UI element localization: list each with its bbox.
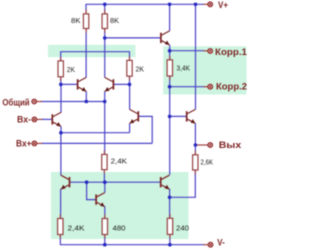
wire 2K left bottom <box>60 77 62 84</box>
wire Korr1 line <box>170 50 204 52</box>
node 2K right / Q4 base / Q2 collector <box>128 83 132 87</box>
wire Korr2 line <box>170 86 204 88</box>
transistor Q8 mirror diode <box>96 193 105 207</box>
wire Q2 collector <box>129 84 131 109</box>
svg-text:Вых: Вых <box>219 140 241 150</box>
transistor Q7 mirror left <box>61 175 70 189</box>
svg-text:2,4K: 2,4K <box>111 156 127 165</box>
resistor R2 8K <box>102 14 119 29</box>
wire 8K left to Q3 collector <box>85 29 87 77</box>
resistor R8 2.4K <box>58 219 85 235</box>
wire 480 bottom <box>104 235 106 245</box>
node 240 at V- rail <box>168 243 172 247</box>
wire 240 bottom <box>169 235 171 245</box>
transistor Q1 input inverting <box>52 112 61 126</box>
terminal Korr.2 <box>208 82 247 92</box>
svg-text:Вх+: Вх+ <box>16 139 32 149</box>
wire mirror base rail <box>70 181 161 183</box>
terminal In+ <box>16 139 37 149</box>
wire Q5 base <box>105 37 161 39</box>
svg-text:480: 480 <box>113 223 126 232</box>
svg-text:V-: V- <box>217 237 224 247</box>
transistor Q6 output <box>187 109 196 123</box>
svg-text:2K: 2K <box>136 64 145 73</box>
terminal V+ <box>208 0 228 10</box>
resistor R6 2.4K <box>102 154 127 169</box>
wire Q5 collector <box>169 4 171 31</box>
wire V- rail <box>60 235 203 245</box>
node 8K right / Q5 base <box>103 36 107 40</box>
node diff emitters / Q7 collector <box>59 131 63 135</box>
wire Q7 emitter to 2.4K <box>60 189 62 218</box>
node Q3 emitter on common line <box>85 100 89 104</box>
wire Q6 emitter to 2.6K <box>194 123 196 154</box>
wire Q8 collector <box>104 182 106 192</box>
terminal common <box>2 97 36 107</box>
svg-text:Корр.2: Корр.2 <box>216 82 247 92</box>
transistor Q5 driver <box>161 31 170 45</box>
node Q4 emitter / common / tail <box>103 100 107 104</box>
svg-text:8K: 8K <box>110 16 119 25</box>
node Q9 emitter / 2.6K / 240 <box>168 196 172 200</box>
svg-text:3,4K: 3,4K <box>177 63 191 72</box>
svg-text:2,4K: 2,4K <box>68 223 85 232</box>
transistor Q4 second stage right <box>105 77 114 91</box>
wire In- lead <box>37 118 43 120</box>
wire Q3 base <box>61 83 78 85</box>
svg-text:240: 240 <box>176 223 189 232</box>
wire Q4 base <box>113 83 129 85</box>
svg-text:2K: 2K <box>67 65 75 74</box>
resistor R1 8K <box>71 14 89 29</box>
svg-text:Вх-: Вх- <box>17 114 31 124</box>
transistor Q3 second stage left <box>78 77 87 91</box>
highlight region bottom current mirror <box>51 172 189 239</box>
wire 8K right top <box>104 4 106 13</box>
resistor R7 2.6K <box>193 155 213 170</box>
wire In+ line <box>42 142 152 144</box>
node Q6 emitter / output <box>194 143 198 147</box>
wire Q4 emitter to 2.4K tail <box>104 91 106 153</box>
svg-text:8K: 8K <box>71 16 81 25</box>
wire Q2 base to In+ <box>138 116 152 143</box>
svg-text:V+: V+ <box>218 0 228 10</box>
wire V+ rail <box>86 4 204 13</box>
wire In+ lead <box>37 142 43 144</box>
wire 2.4K tail bottom <box>103 170 105 182</box>
wire Q1 emitter <box>60 126 62 132</box>
wire Q6 base <box>170 115 187 117</box>
wire Korr2 lead <box>204 86 208 88</box>
svg-text:Корр.1: Корр.1 <box>215 47 247 57</box>
node 480 at V- rail <box>103 243 107 247</box>
resistor R9 480 <box>102 219 125 235</box>
wire tail dot to Q7 collector <box>60 133 62 176</box>
wire Q8 emitter to 480 <box>104 207 106 218</box>
wire Q9 emitter to 240 <box>169 189 171 218</box>
wire 2.6K bottom to Q9 emitter <box>170 171 196 198</box>
node 2K left / Q3 base / Q1 collector <box>59 83 63 87</box>
resistor R10 240 <box>167 218 189 234</box>
node mirror base / Q8 base tap <box>85 180 89 184</box>
wire 2K rail <box>61 52 130 61</box>
node Q6 base tap <box>168 115 172 119</box>
transistor Q2 input non-inverting <box>130 109 139 123</box>
wire In- to Q1 base <box>42 118 52 120</box>
highlight band over 2K rail <box>48 45 136 57</box>
wire emitter rail <box>61 132 130 134</box>
wire 8K right to Q4 collector <box>104 29 106 77</box>
svg-text:2,6K: 2,6K <box>201 157 214 166</box>
wire common line <box>41 101 105 103</box>
wire Q8 base drop <box>87 182 97 199</box>
node tail / mirror base / Q8 collector <box>103 180 107 184</box>
terminal V- <box>208 237 225 247</box>
node 3.4K / Korr.2 <box>168 85 172 89</box>
transistor Q9 mirror right <box>161 175 170 189</box>
wire V+ to Q6 collector <box>195 4 197 109</box>
wire Out lead <box>195 144 207 146</box>
node Q5 collector at V+ rail <box>168 3 172 7</box>
resistor R4 2K <box>127 60 144 76</box>
wire Q9 collector to correction column <box>169 77 171 175</box>
highlight region correction network <box>163 46 246 94</box>
terminal In- <box>17 114 37 124</box>
wire Korr1 lead <box>204 50 208 52</box>
wire Q1 collector <box>60 84 62 112</box>
node 8K right at V+ rail <box>103 3 107 7</box>
wire 2K right bottom <box>129 77 131 85</box>
terminal Korr.1 <box>208 47 247 57</box>
wire Q5 emitter to 3.4K <box>169 45 171 59</box>
resistor R5 3.4K <box>167 60 190 76</box>
wire Q3 emitter to common <box>85 91 87 101</box>
node output collector at V+ rail <box>194 3 198 7</box>
svg-text:Общий: Общий <box>2 97 29 107</box>
wire common terminal lead <box>37 101 42 103</box>
resistor R3 2K <box>58 61 75 77</box>
terminal Out <box>208 140 241 150</box>
resistor pin leads <box>60 10 195 239</box>
wire V- lead <box>203 244 207 246</box>
node Q5 emitter / Korr.1 <box>168 49 172 53</box>
wire V+ terminal lead <box>203 3 207 5</box>
wire Q2 emitter <box>129 123 131 132</box>
